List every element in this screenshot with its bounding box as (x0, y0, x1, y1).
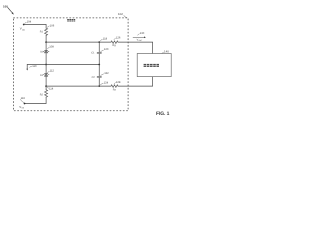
svg-text:104: 104 (27, 21, 32, 24)
svg-text:Rs: Rs (113, 89, 117, 92)
wire C2 to node F (98, 78, 100, 87)
svg-text:122: 122 (104, 72, 109, 75)
svg-text:C1: C1 (91, 51, 95, 54)
wire node B to mid column (46, 64, 99, 66)
label 110 at output arm (32, 65, 37, 68)
label 116 at VSS (21, 97, 26, 100)
node F junction dot (98, 85, 100, 87)
svg-text:130: 130 (140, 32, 145, 35)
label 130 at Vout (140, 32, 145, 35)
svg-text:112: 112 (50, 70, 55, 73)
node B junction dot (45, 64, 47, 66)
label 102 for dashed box (118, 12, 123, 16)
capacitor C1 (97, 52, 101, 53)
load box U1 (137, 54, 171, 77)
label 128 at Rs (116, 81, 121, 84)
diode D1 (43, 50, 49, 53)
label 140 at load box (164, 50, 169, 54)
leader arrow from 100 to dashed box corner (8, 8, 13, 14)
R2 value label (40, 93, 44, 96)
wire node A to D1 (45, 42, 47, 50)
wire R2 down to VSS rail (25, 97, 47, 103)
Vout direction arrow (133, 36, 145, 38)
resistor R1 (45, 28, 48, 35)
wire D2 to node C (45, 76, 47, 86)
svg-text:FIG. 1: FIG. 1 (156, 111, 170, 117)
wire top segment (45, 25, 47, 29)
svg-text:Rg: Rg (112, 44, 116, 47)
VSS label (19, 105, 25, 110)
D2 designator (40, 74, 44, 77)
wire node D down to C1 (98, 42, 100, 52)
label 120 at C1 (104, 48, 109, 51)
VDD label (20, 27, 26, 32)
label 126 at Rg (116, 37, 121, 40)
svg-text:110: 110 (32, 65, 37, 68)
C1 designator (91, 51, 95, 54)
label 106 top of wire (50, 24, 55, 27)
svg-text:OUT: OUT (139, 39, 143, 42)
Vout net label (137, 39, 143, 43)
svg-text:C2: C2 (92, 76, 96, 79)
output arrow head (26, 69, 28, 71)
wire R1 to node A (45, 35, 47, 42)
svg-text:102: 102 (118, 12, 123, 16)
svg-text:124: 124 (104, 81, 109, 84)
dashed box title text (CJK blobs) (67, 19, 75, 22)
Rs designator (113, 89, 117, 92)
label 100 (3, 4, 8, 8)
label 104 at VDD (27, 21, 32, 24)
VSS terminal dot (24, 103, 26, 105)
svg-text:126: 126 (116, 37, 121, 40)
svg-text:128: 128 (116, 81, 121, 84)
D1 designator (40, 50, 44, 53)
svg-text:108: 108 (49, 46, 54, 49)
R1 value label (40, 30, 44, 33)
Rg designator (112, 44, 116, 47)
bottom rail node C to Rs (46, 85, 111, 87)
label 122 at C2 (104, 72, 109, 75)
resistor R2 (45, 90, 48, 97)
node C junction dot (45, 85, 47, 87)
label 112 at D2 (50, 70, 55, 73)
svg-text:140: 140 (164, 50, 169, 54)
svg-text:100: 100 (3, 4, 8, 8)
wire D1 to node B (45, 53, 47, 65)
label 114 at node C (49, 87, 54, 90)
svg-text:DD: DD (22, 28, 25, 31)
wire node B to left output arm (27, 64, 46, 66)
label 108 at D1 (49, 46, 54, 49)
label 124 at node F (104, 81, 109, 84)
svg-text:106: 106 (50, 24, 55, 27)
svg-text:R1: R1 (40, 30, 44, 33)
wire output arm down (26, 65, 28, 70)
wire C1 to node E (98, 54, 100, 65)
node A junction dot (45, 41, 47, 43)
svg-text:SS: SS (22, 107, 25, 110)
C2 designator (92, 76, 96, 79)
capacitor C2 (97, 76, 101, 77)
bottom rail Rs to load box (118, 77, 153, 87)
svg-text:120: 120 (104, 48, 109, 51)
load box title text (CJK blobs) (144, 64, 159, 67)
svg-text:116: 116 (21, 97, 26, 100)
svg-text:D1: D1 (40, 50, 44, 53)
svg-text:R2: R2 (40, 93, 44, 96)
wire VDD rail (24, 24, 46, 26)
top rail Rg to load box (118, 42, 153, 53)
wire node B to D2 (45, 65, 47, 74)
VDD terminal dot (23, 24, 25, 26)
node E junction dot (98, 64, 100, 66)
diode D2 (43, 74, 49, 77)
wire node C to R2 (45, 86, 47, 90)
top rail node A to Rg (46, 41, 111, 43)
FIG. 1 caption (156, 111, 170, 117)
wire node E to C2 (98, 65, 100, 77)
dashed box (interference circuit) (14, 18, 129, 111)
svg-text:D2: D2 (40, 74, 44, 77)
label 118 at node D (103, 38, 108, 41)
resistor Rs (111, 85, 118, 88)
node D junction dot (98, 41, 100, 43)
svg-text:118: 118 (103, 38, 108, 41)
svg-text:114: 114 (49, 87, 54, 90)
resistor Rg (111, 41, 118, 44)
